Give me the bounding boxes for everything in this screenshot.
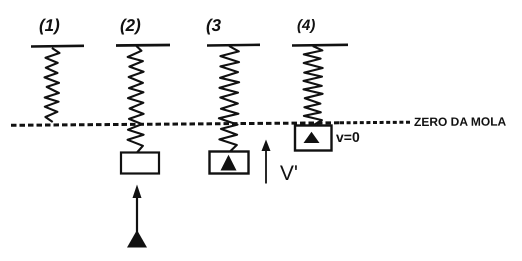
support bar 2 xyxy=(116,44,170,47)
spring 1 xyxy=(45,48,60,122)
svg-text:V': V' xyxy=(280,162,298,185)
svg-text:(1): (1) xyxy=(39,16,60,35)
triangle in box 3 xyxy=(221,155,237,171)
spring 3 xyxy=(219,46,239,152)
svg-text:(3: (3 xyxy=(206,16,222,35)
svg-text:(2): (2) xyxy=(120,16,141,35)
launch arrow base triangle xyxy=(127,230,147,248)
V' arrow xyxy=(265,147,267,184)
dashed zero line (left part) xyxy=(11,123,340,126)
support bar 1 xyxy=(31,44,84,47)
support bar 4 xyxy=(292,43,348,46)
dashed zero line (right dotted part) xyxy=(340,121,412,125)
svg-text:ZERO DA MOLA: ZERO DA MOLA xyxy=(414,115,507,129)
mass box 2 (empty) xyxy=(121,153,159,174)
spring 2 xyxy=(128,46,144,153)
svg-text:(4): (4) xyxy=(297,17,315,34)
mass box 3 xyxy=(210,152,249,174)
launch arrow below box 2 xyxy=(136,196,138,237)
mass box 4 xyxy=(295,126,332,151)
support bar 3 xyxy=(207,43,260,46)
svg-text:v=0: v=0 xyxy=(336,129,360,145)
triangle in box 4 xyxy=(304,132,320,143)
spring 4 xyxy=(304,46,323,125)
